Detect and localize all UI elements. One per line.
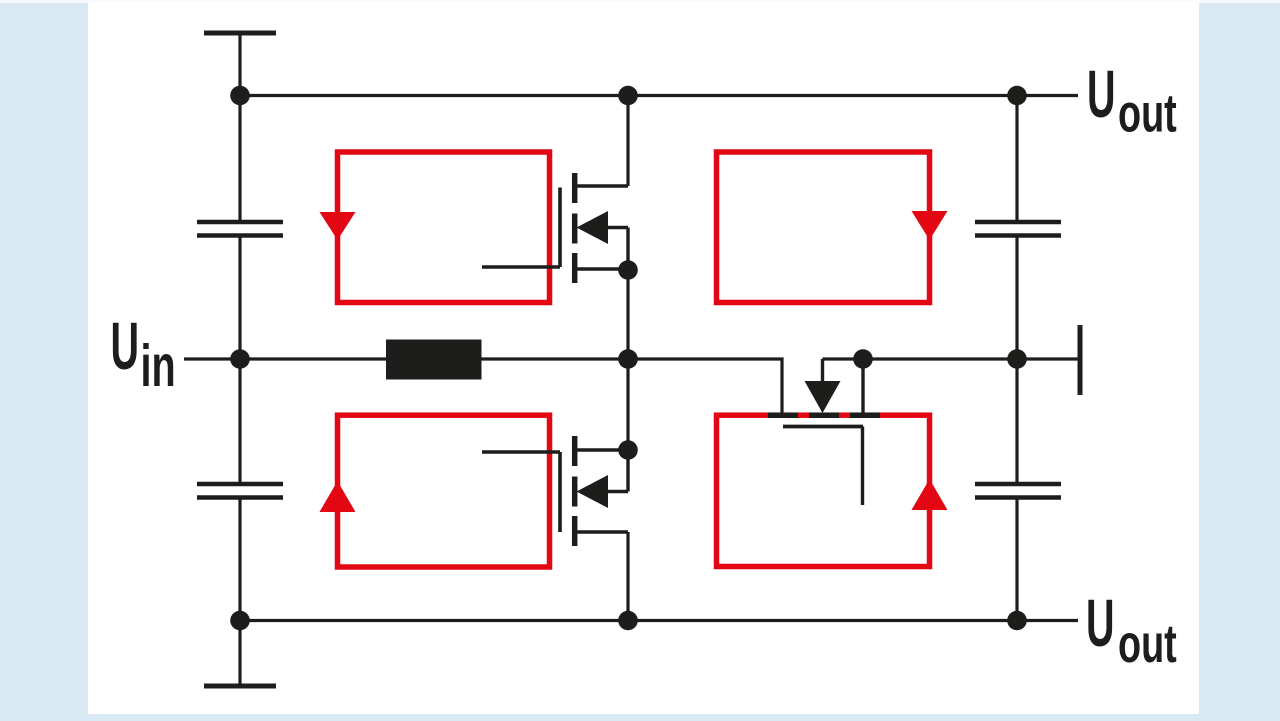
Q2 channel bars [572,436,578,546]
Q1 gate lead [482,265,560,268]
node top-center [618,86,638,106]
wire right rail lower segment [1015,499,1018,621]
Q3 body lead [821,359,824,381]
terminal top-left [204,31,276,36]
loop 1 arrow down [320,212,356,240]
wire bottom rail horizontal [240,619,1078,622]
Q1 channel bars [572,173,578,283]
Q1 body lead [608,228,628,271]
Q1 gate line [558,188,562,268]
capacitor C1 top-left [197,222,283,236]
svg-text:in: in [141,333,176,399]
wire middle rail left (Uin to Q3 drain corner) [184,359,782,415]
wire center rail Q1 source to Q2 drain [626,270,629,450]
node Q3 source [853,349,873,369]
Q1 drain lead [575,184,628,187]
Q2 drain lead [575,448,628,451]
Q3 channel bars [768,412,880,418]
Q2 body arrow [577,475,609,508]
current loop 3 bottom-left (red) [338,415,550,567]
current loop 2 top-right (red) [717,152,930,303]
svg-text:out: out [1118,613,1177,673]
svg-text:U: U [111,308,140,384]
svg-text:out: out [1118,83,1177,143]
capacitor C4 bottom-right [975,484,1061,498]
node Q2 drain [618,440,638,460]
Q3 gate lead [861,427,864,506]
transistor Q2 bottom-center MOSFET [482,436,628,546]
wire center rail Q2 source down [626,532,629,621]
node Q1 source [618,260,638,280]
wire center rail Q1 drain up [626,96,629,187]
Q3 gate bar [783,425,863,429]
node middle-left [230,349,250,369]
Q3 source lead [861,359,864,415]
top light strip [0,0,1280,3]
current loop 1 top-left (red) [338,152,550,303]
wire right rail upper segment [1015,96,1018,222]
wire top rail horizontal [240,94,1078,97]
svg-text:U: U [1087,56,1116,132]
transistor Q1 top-center MOSFET [482,173,628,283]
node bottom-right [1007,611,1027,631]
Q1 source lead [575,267,628,270]
loop 4 arrow up [912,479,948,510]
transistor Q3 right MOSFET (horizontal) [768,359,880,505]
svg-text:U: U [1086,585,1115,661]
node top-right [1007,86,1027,106]
wire right rail middle segment [1015,237,1018,484]
current loop 4 bottom-right (red) [717,415,930,566]
wire left rail lower segment [238,499,241,687]
node middle-center [618,349,638,369]
node bottom-left [230,611,250,631]
capacitor C3 top-right [975,222,1061,236]
capacitor C2 bottom-left [197,484,283,498]
wire left rail middle segment [238,237,241,484]
loop 2 arrow down [912,211,948,240]
node top-left [230,86,250,106]
loop 3 arrow up [320,481,356,512]
Q2 source lead [575,530,628,533]
inductor L1 [386,340,482,380]
label Uout bottom [1086,585,1177,673]
wire middle rail right (Q3 body to right terminal) [823,357,1079,360]
terminal right-middle [1078,325,1083,395]
Q2 body lead [608,450,628,492]
terminal bottom-left [204,684,276,689]
Q2 gate line [558,452,562,532]
label Uout top [1087,56,1177,143]
node bottom-center [618,611,638,631]
Q3 body arrow [805,381,841,413]
label Uin [111,308,176,399]
Q2 gate lead [482,450,560,453]
Q1 body arrow [577,211,609,244]
wire left rail upper segment [238,33,241,221]
node middle-right [1007,349,1027,369]
